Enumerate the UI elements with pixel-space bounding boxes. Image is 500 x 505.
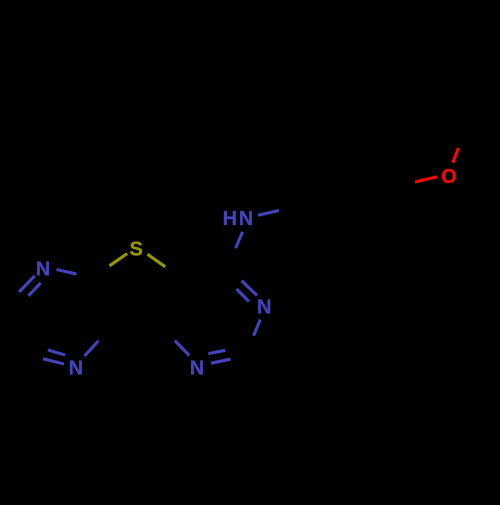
wire O to methyl half-bond bbox=[453, 148, 459, 163]
wire C=N(pyrazine bottom) double bond halves bbox=[43, 350, 65, 364]
wire N(pyrazine top) to C8a half-bond bbox=[57, 270, 77, 275]
wire NH to C4 half-bond bbox=[236, 232, 243, 248]
svg-text:N: N bbox=[69, 358, 83, 380]
svg-text:N: N bbox=[190, 358, 204, 380]
wire O to phenyl half-bond bbox=[415, 177, 437, 182]
wire S to C(left) half-bond bbox=[110, 254, 128, 266]
wire C4=N3 double bond halves bbox=[237, 281, 258, 302]
svg-text:N: N bbox=[36, 258, 50, 280]
svg-text:N: N bbox=[257, 296, 271, 318]
wire N3 to C2 half-bond bbox=[254, 320, 261, 336]
svg-text:H: H bbox=[223, 208, 237, 230]
wire N1 to C half-bond bbox=[175, 341, 190, 356]
svg-text:O: O bbox=[441, 166, 457, 188]
wire N(pyrazine top)=C double bond halves bbox=[19, 276, 41, 296]
wire C2=N1 double bond halves bbox=[208, 350, 230, 363]
wire NH to phenyl half-bond bbox=[258, 211, 279, 216]
wire N(pyrazine bottom) to C4a half-bond bbox=[84, 341, 98, 356]
svg-text:S: S bbox=[130, 238, 143, 260]
wire S to C(right) half-bond bbox=[148, 254, 166, 267]
svg-text:N: N bbox=[239, 208, 253, 230]
